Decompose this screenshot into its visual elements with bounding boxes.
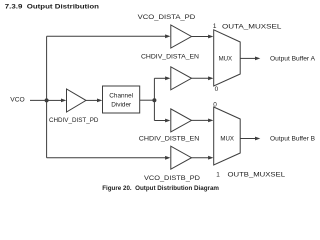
svg-text:Figure 20. Output Distributio: Figure 20. Output Distribution Diagram <box>102 185 219 192</box>
arrowhead MUX A input 1 <box>208 35 213 39</box>
wire VCO_DISTB_PD buffer to MUX B input 1 <box>192 157 210 159</box>
svg-text:CHDIV_DIST_PD: CHDIV_DIST_PD <box>49 117 99 124</box>
buffer CHDIV_DIST_PD <box>67 89 87 112</box>
svg-text:CHDIV_DISTB_EN: CHDIV_DISTB_EN <box>139 135 200 142</box>
wire VCO input to node <box>30 99 47 101</box>
arrowhead into VCO_DISTB_PD buffer <box>165 156 170 160</box>
wire MUX A output <box>241 57 256 59</box>
svg-text:1: 1 <box>213 23 217 30</box>
svg-text:VCO_DISTA_PD: VCO_DISTA_PD <box>138 14 196 21</box>
wire Channel Divider to node <box>140 99 155 101</box>
svg-text:VCO_DISTB_PD: VCO_DISTB_PD <box>144 175 200 182</box>
arrowhead Output Buffer A <box>255 57 260 61</box>
svg-text:MUX: MUX <box>219 56 233 63</box>
svg-text:OUTA_MUXSEL: OUTA_MUXSEL <box>222 23 282 30</box>
buffer CHDIV_DISTB_EN <box>171 109 192 132</box>
svg-text:OUTB_MUXSEL: OUTB_MUXSEL <box>228 171 286 178</box>
svg-text:0: 0 <box>213 101 217 108</box>
block Channel Divider <box>103 86 140 113</box>
wire top branch to VCO_DISTA_PD buffer <box>47 35 166 37</box>
svg-text:CHDIV_DISTA_EN: CHDIV_DISTA_EN <box>141 53 199 60</box>
buffer CHDIV_DISTA_EN <box>171 67 192 90</box>
buffer VCO_DISTA_PD <box>171 25 192 48</box>
arrowhead into CHDIV_DISTA_EN buffer <box>165 76 170 80</box>
svg-text:0: 0 <box>215 86 219 93</box>
svg-text:VCO: VCO <box>10 96 24 103</box>
svg-text:7.3.9 Output Distribution: 7.3.9 Output Distribution <box>5 4 99 11</box>
wire CHDIV_DIST_PD buffer to Channel Divider <box>86 99 98 101</box>
mux B <box>214 107 241 165</box>
wire MUX B output <box>241 138 256 140</box>
wire bottom branch to VCO_DISTB_PD buffer <box>47 157 166 159</box>
wire CHDIV_DISTA_EN buffer to MUX A input 0 <box>192 77 210 79</box>
svg-text:Output Buffer B: Output Buffer B <box>270 136 315 143</box>
arrowhead Output Buffer B <box>255 137 260 141</box>
wire vertical divider branch <box>153 78 155 120</box>
wire to CHDIV_DISTA_EN buffer <box>154 77 165 79</box>
buffer VCO_DISTB_PD <box>171 146 192 169</box>
arrowhead into CHDIV_DISTB_EN buffer <box>165 119 170 123</box>
wire to CHDIV_DISTB_EN buffer <box>154 120 165 122</box>
wire CHDIV_DISTB_EN buffer to MUX B input 0 <box>192 119 210 121</box>
arrowhead MUX A input 0 <box>208 76 213 80</box>
arrowhead into CHDIV_DIST_PD buffer <box>61 99 66 103</box>
wire VCO_DISTA_PD buffer to MUX A input 1 <box>192 36 210 38</box>
svg-text:1: 1 <box>216 171 220 178</box>
svg-text:Output Buffer A: Output Buffer A <box>270 56 316 63</box>
arrowhead MUX B input 0 <box>208 119 213 123</box>
node channel divider junction <box>152 98 156 102</box>
arrowhead MUX B input 1 <box>208 156 213 160</box>
arrowhead into Channel Divider <box>97 99 102 103</box>
svg-text:MUX: MUX <box>220 136 234 143</box>
svg-text:Channel: Channel <box>109 93 133 100</box>
wire vertical VCO branch <box>46 36 48 158</box>
svg-text:Divider: Divider <box>111 102 132 109</box>
wire node to CHDIV_DIST_PD buffer <box>47 99 62 101</box>
node VCO junction <box>45 98 49 102</box>
mux A <box>214 30 241 86</box>
arrowhead into VCO_DISTA_PD buffer <box>165 34 170 38</box>
